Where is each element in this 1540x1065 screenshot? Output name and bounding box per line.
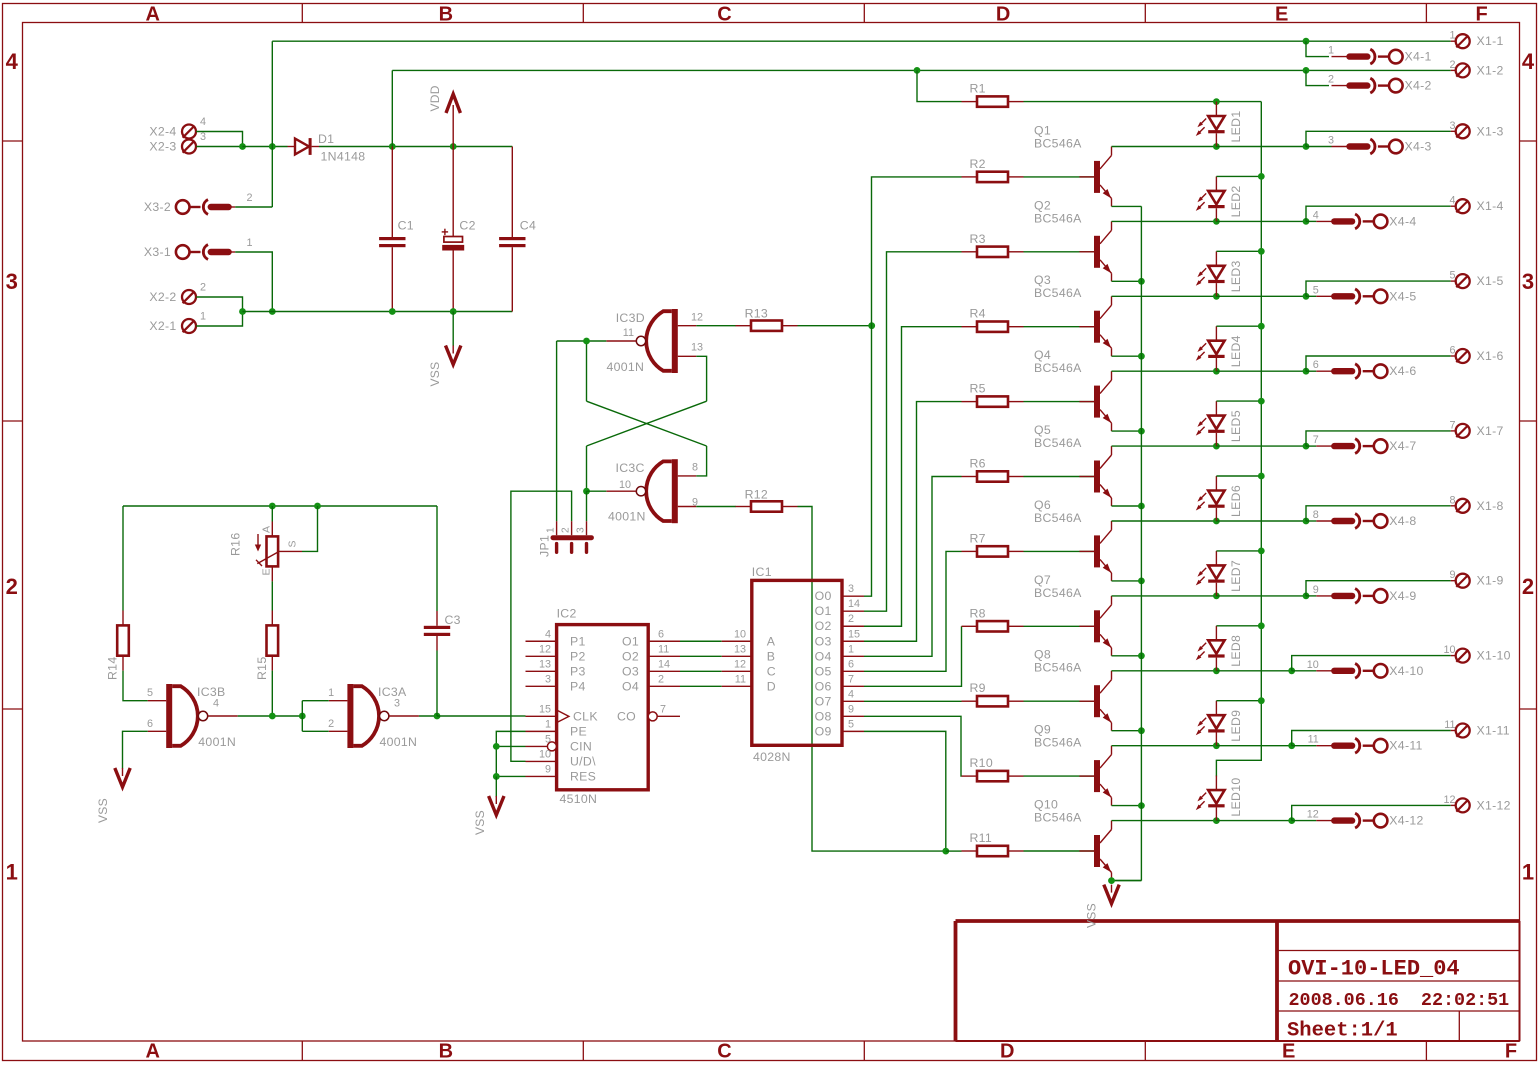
LED LED5: [1196, 401, 1243, 446]
junction IC3A input: [299, 713, 306, 720]
wire O9 to R11: [864, 731, 946, 851]
diode D1: [288, 132, 366, 164]
svg-text:13: 13: [691, 342, 703, 354]
svg-text:PE: PE: [570, 724, 587, 738]
connector X1-4: [1449, 195, 1503, 214]
junction LED3 anode: [1258, 248, 1265, 255]
wire jog up to X1-6: [1306, 356, 1451, 371]
junction LED7 anode: [1258, 548, 1265, 555]
wire Q8 collector to LED8: [1112, 670, 1217, 672]
wire R16 wiper to top: [302, 506, 318, 551]
svg-text:X1-3: X1-3: [1477, 124, 1504, 138]
wire IC3B out to IC3A in: [238, 715, 303, 717]
capacitor C4: [499, 147, 536, 312]
svg-text:O3: O3: [815, 634, 832, 648]
wire R16 to R15: [271, 581, 273, 610]
transistor Q6: [1034, 498, 1112, 581]
svg-text:X4-7: X4-7: [1389, 439, 1416, 453]
junction LED8 anode: [1258, 622, 1265, 629]
wire jog up to X1-12: [1292, 805, 1451, 820]
svg-text:1: 1: [200, 311, 206, 323]
wire jog to X4-10: [1292, 670, 1317, 672]
junction emitter VSS: [1108, 877, 1115, 884]
wire O1 to R3: [864, 252, 962, 611]
svg-text:F: F: [1475, 3, 1487, 25]
wire jog to X4-8: [1306, 520, 1316, 522]
svg-text:A: A: [145, 1041, 159, 1063]
frame row ticks right: [1520, 141, 1537, 709]
LED LED4: [1196, 326, 1243, 371]
wire R4 to Q3 base: [1024, 326, 1097, 328]
svg-text:12: 12: [1307, 809, 1319, 821]
svg-text:2: 2: [658, 673, 664, 685]
wire cross A to IC3C pin8: [696, 446, 706, 476]
svg-text:Q1: Q1: [1034, 123, 1051, 137]
svg-text:LED2: LED2: [1229, 185, 1243, 217]
wire junction to D1 anode node: [243, 146, 288, 148]
svg-text:BC546A: BC546A: [1034, 736, 1082, 750]
frame column ticks bottom: [302, 1041, 1426, 1061]
wire LED6 anode to rail: [1216, 475, 1261, 477]
svg-text:LED1: LED1: [1229, 111, 1243, 143]
wire R2 to Q1 base: [1024, 176, 1097, 178]
wire R14 bottom to IC3B pin5: [123, 671, 148, 701]
junction X1-5 jog: [1303, 293, 1310, 300]
resistor R1: [962, 82, 1024, 107]
junction X2 minus: [239, 308, 246, 315]
junction VIN node: [269, 143, 276, 150]
junction LED2 cathode: [1213, 218, 1220, 225]
svg-text:R9: R9: [970, 681, 986, 695]
junction R13 riser: [868, 322, 875, 329]
junction emitter rail Q4: [1138, 428, 1145, 435]
wire O3 to R5: [864, 402, 962, 642]
wire R6 to Q5 base: [1024, 476, 1097, 478]
frame row ticks left: [3, 141, 23, 709]
svg-text:7: 7: [1313, 434, 1319, 446]
connector X1-6: [1449, 345, 1503, 364]
svg-text:S: S: [287, 540, 299, 547]
resistor R6: [962, 457, 1024, 482]
junction C2 bottom: [450, 308, 457, 315]
svg-text:B: B: [439, 1041, 453, 1063]
wire VIN riser vertical: [271, 41, 273, 207]
svg-text:15: 15: [539, 703, 551, 715]
svg-text:1: 1: [6, 860, 18, 885]
wire Q9 emitter: [1112, 805, 1142, 807]
svg-text:1N4148: 1N4148: [321, 150, 366, 164]
svg-text:2: 2: [1522, 574, 1534, 599]
resistor R8: [962, 606, 1024, 631]
wire jog to X4-9: [1306, 595, 1316, 597]
connector X4-12: [1307, 809, 1424, 828]
svg-text:14: 14: [658, 658, 670, 670]
wire jog to X4-4: [1306, 220, 1316, 222]
svg-text:5: 5: [1449, 270, 1455, 282]
wire jog to X4-5: [1306, 295, 1316, 297]
wire jog to X4-12: [1292, 820, 1317, 822]
junction C1 top: [389, 143, 396, 150]
junction VDD symbol node: [450, 143, 457, 150]
wire O6 to R8: [864, 626, 962, 686]
svg-text:C: C: [767, 664, 776, 678]
svg-text:O4: O4: [815, 649, 832, 663]
wire O8 to R10: [864, 716, 962, 776]
svg-text:2: 2: [6, 574, 18, 599]
svg-text:6: 6: [848, 658, 854, 670]
svg-text:12: 12: [734, 658, 746, 670]
wire LED4 cathode to X4-6: [1216, 370, 1306, 372]
junction LED1 anode: [1213, 98, 1220, 105]
svg-text:U/D\: U/D\: [570, 754, 596, 768]
wire jog to X4-11: [1292, 745, 1317, 747]
svg-text:4: 4: [1522, 49, 1535, 74]
svg-text:X1-11: X1-11: [1477, 724, 1510, 738]
supply VDD symbol: [428, 85, 460, 146]
svg-text:Q6: Q6: [1034, 498, 1051, 512]
svg-text:JP1: JP1: [538, 535, 552, 557]
junction emitter rail Q9: [1138, 802, 1145, 809]
svg-text:3: 3: [1449, 120, 1455, 132]
wire O7 to R9: [864, 700, 962, 702]
svg-text:12: 12: [1443, 794, 1455, 806]
wire R7 to Q6 base: [1024, 550, 1097, 552]
wire LED6 cathode to X4-8: [1216, 520, 1306, 522]
resistor R2: [962, 157, 1024, 182]
svg-text:C1: C1: [398, 219, 414, 233]
svg-text:X1-8: X1-8: [1477, 499, 1504, 513]
wire Q8 emitter: [1112, 730, 1142, 732]
svg-text:X2-3: X2-3: [149, 140, 176, 154]
svg-text:A: A: [767, 634, 776, 648]
svg-text:8: 8: [1313, 509, 1319, 521]
svg-text:2: 2: [1328, 74, 1334, 86]
wire jog to X4-7: [1306, 445, 1316, 447]
LED LED6: [1196, 476, 1243, 521]
wire jog up to X1-3: [1306, 131, 1451, 146]
junction R15 bottom: [269, 713, 276, 720]
junction R16 wiper: [314, 503, 321, 510]
svg-text:O0: O0: [815, 589, 832, 603]
LED LED1: [1196, 102, 1243, 147]
svg-text:4: 4: [545, 628, 551, 640]
svg-text:3: 3: [394, 698, 400, 710]
svg-text:B: B: [439, 3, 453, 25]
resistor R9: [962, 681, 1024, 706]
supply VSS symbol IC3B: [96, 768, 130, 823]
supply VSS symbol top: [428, 312, 461, 387]
connector X3-1: [144, 237, 253, 259]
wire R13 to O0 net: [798, 325, 872, 327]
svg-text:O3: O3: [622, 664, 639, 678]
wire X3-1 to VSS node: [235, 252, 272, 312]
svg-text:10: 10: [619, 479, 631, 491]
wire IC3A input split: [302, 701, 329, 732]
capacitor C3: [424, 506, 461, 716]
svg-text:IC3B: IC3B: [197, 685, 226, 699]
LED LED9: [1196, 701, 1243, 746]
junction C1 bottom: [389, 308, 396, 315]
junction LED5 anode: [1258, 398, 1265, 405]
svg-text:X4-6: X4-6: [1389, 364, 1416, 378]
svg-text:C4: C4: [520, 219, 536, 233]
frame row numbers left: [6, 49, 19, 885]
wire jog up to X1-9: [1306, 581, 1451, 596]
svg-text:VSS: VSS: [473, 810, 487, 835]
svg-text:VSS: VSS: [96, 798, 110, 823]
svg-text:VDD: VDD: [428, 85, 442, 111]
junction emitter rail Q3: [1138, 353, 1145, 360]
svg-text:X2-2: X2-2: [149, 290, 176, 304]
wire R11 to Q10 base: [1024, 850, 1097, 852]
svg-text:BC546A: BC546A: [1034, 586, 1082, 600]
svg-text:1: 1: [1328, 45, 1334, 57]
svg-text:3: 3: [576, 527, 587, 533]
svg-text:IC1: IC1: [752, 565, 772, 579]
svg-text:6: 6: [147, 718, 153, 730]
junction X1-1 jog: [1303, 38, 1310, 45]
svg-text:X2-4: X2-4: [149, 125, 176, 139]
connector X1-8: [1449, 494, 1503, 513]
svg-text:R8: R8: [970, 606, 986, 620]
svg-text:R15: R15: [255, 657, 269, 680]
svg-text:O2: O2: [622, 649, 639, 663]
svg-text:2008.06.16 22:02:51: 2008.06.16 22:02:51: [1289, 990, 1510, 1011]
wire LED anode rail vertical: [1216, 102, 1261, 777]
junction LED2 anode: [1258, 173, 1265, 180]
wire R5 to Q4 base: [1024, 401, 1097, 403]
wire emitter rail to VSS: [1112, 880, 1142, 882]
junction LED5 cathode: [1213, 443, 1220, 450]
svg-text:11: 11: [658, 643, 669, 655]
svg-text:Q9: Q9: [1034, 723, 1051, 737]
wire Q2 collector to LED2: [1112, 220, 1217, 222]
connector X3-2: [144, 192, 253, 214]
wire Q4 emitter: [1112, 430, 1142, 432]
nor gate IC3A: [328, 684, 419, 749]
svg-text:VSS: VSS: [428, 362, 442, 387]
connector X4-2: [1328, 74, 1432, 93]
connector X4-6: [1313, 359, 1417, 378]
counter IC2 4510N: [526, 607, 681, 807]
connector X4-11: [1308, 734, 1423, 753]
svg-text:IC3A: IC3A: [378, 685, 407, 699]
transistor Q2: [1034, 198, 1112, 281]
junction LED3 cathode: [1213, 293, 1220, 300]
svg-text:R2: R2: [970, 157, 986, 171]
junction emitter rail Q8: [1138, 727, 1145, 734]
capacitor C2 polarized: [442, 147, 476, 312]
svg-text:5: 5: [545, 733, 551, 745]
svg-text:X3-1: X3-1: [144, 245, 171, 259]
svg-text:D: D: [1000, 1041, 1014, 1063]
svg-text:R7: R7: [970, 531, 986, 545]
wire IC3B pin6 to VSS: [123, 731, 148, 768]
wire Q3 collector to LED3: [1112, 295, 1217, 297]
wire Q5 collector to LED5: [1112, 445, 1217, 447]
svg-text:OVI-10-LED_04: OVI-10-LED_04: [1288, 957, 1460, 982]
resistor R15: [255, 611, 278, 681]
svg-text:Q5: Q5: [1034, 423, 1051, 437]
wire LED5 cathode to X4-7: [1216, 445, 1306, 447]
wire X2-2 to VSS node: [196, 297, 242, 312]
resistor R11: [962, 831, 1024, 856]
connector X4-1: [1328, 45, 1432, 64]
svg-text:E: E: [261, 568, 273, 575]
svg-text:12: 12: [691, 312, 703, 324]
resistor R5: [962, 382, 1024, 407]
connector X4-10: [1307, 659, 1424, 678]
connector X4-5: [1313, 284, 1417, 303]
wire Q7 emitter: [1112, 655, 1142, 657]
svg-text:5: 5: [147, 687, 153, 699]
wire IC2 outputs to IC1 inputs: [680, 641, 722, 686]
wire X1-2 rail riser: [391, 70, 393, 146]
wire R15 bottom to osc node: [271, 671, 273, 716]
svg-text:5: 5: [1313, 284, 1319, 296]
resistor R10: [962, 756, 1024, 781]
decoder IC1 4028N: [722, 565, 864, 764]
svg-text:7: 7: [848, 673, 854, 685]
svg-text:3: 3: [545, 673, 551, 685]
wire Q3 emitter: [1112, 355, 1142, 357]
wire Q10 collector to LED10: [1112, 820, 1217, 822]
svg-text:4: 4: [213, 698, 219, 710]
svg-text:X4-2: X4-2: [1405, 79, 1432, 93]
svg-text:5: 5: [848, 718, 854, 730]
junction LED10 cathode: [1213, 817, 1220, 824]
svg-text:D: D: [767, 679, 776, 693]
svg-text:O1: O1: [622, 634, 639, 648]
svg-text:1: 1: [546, 527, 557, 533]
wire R14 top: [122, 506, 124, 611]
svg-text:X1-6: X1-6: [1477, 349, 1504, 363]
wire latch cross B: [587, 401, 707, 446]
svg-text:X4-11: X4-11: [1389, 739, 1422, 753]
svg-text:O8: O8: [815, 709, 832, 723]
svg-text:15: 15: [848, 628, 860, 640]
wire jog down to X4-2: [1306, 70, 1329, 85]
svg-text:9: 9: [545, 763, 551, 775]
svg-text:11: 11: [1444, 719, 1455, 731]
svg-text:3: 3: [6, 269, 18, 294]
junction LED7 cathode: [1213, 593, 1220, 600]
connector X1-1: [1449, 30, 1503, 49]
capacitor C1: [379, 147, 414, 312]
LED LED8: [1196, 626, 1243, 671]
svg-text:10: 10: [539, 748, 551, 760]
svg-text:8: 8: [692, 462, 698, 474]
svg-text:4: 4: [200, 116, 206, 128]
svg-text:Q3: Q3: [1034, 273, 1051, 287]
svg-text:X1-5: X1-5: [1477, 274, 1504, 288]
wire O5 to R7: [864, 551, 962, 671]
wire O4 to R6: [864, 477, 962, 657]
svg-text:2: 2: [247, 192, 253, 204]
svg-text:4001N: 4001N: [198, 735, 236, 749]
svg-text:VSS: VSS: [1085, 903, 1099, 928]
svg-text:R13: R13: [745, 307, 768, 321]
svg-text:1: 1: [545, 718, 551, 730]
svg-text:13: 13: [539, 658, 551, 670]
resistor R14: [106, 611, 129, 681]
svg-text:BC546A: BC546A: [1034, 361, 1082, 375]
svg-text:Sheet:1/1: Sheet:1/1: [1287, 1020, 1398, 1043]
resistor R3: [962, 232, 1024, 257]
svg-text:R11: R11: [970, 831, 993, 845]
svg-text:4: 4: [1449, 195, 1455, 207]
wire X3-2 to VIN riser: [235, 206, 272, 208]
svg-text:CO: CO: [617, 709, 636, 723]
wire R12 to R11 net: [798, 507, 946, 852]
wire LED8 anode to rail: [1216, 625, 1261, 627]
svg-text:Q8: Q8: [1034, 648, 1051, 662]
connector X4-3: [1328, 135, 1432, 154]
svg-text:7: 7: [660, 703, 666, 715]
wire Q7 collector to LED7: [1112, 595, 1217, 597]
trimmer R16: [229, 522, 303, 582]
connector X1-5: [1449, 270, 1503, 289]
svg-text:O4: O4: [622, 679, 639, 693]
junction C3 bottom: [434, 713, 441, 720]
wire latch cross A: [587, 401, 707, 446]
svg-text:14: 14: [848, 598, 860, 610]
resistor R12: [736, 488, 798, 512]
connector X4-7: [1313, 434, 1417, 453]
svg-text:4: 4: [1313, 209, 1319, 221]
junction emitter rail Q7: [1138, 652, 1145, 659]
junction IC3C output: [583, 488, 590, 495]
frame column letters bottom: [145, 1041, 1517, 1063]
transistor Q3: [1034, 273, 1112, 356]
junction X1-2 jog: [1303, 67, 1310, 74]
svg-text:F: F: [1505, 1041, 1517, 1063]
junction X1-12 jog: [1288, 817, 1295, 824]
connector X4-9: [1313, 584, 1417, 603]
wire LED3 anode to rail: [1216, 250, 1261, 252]
svg-text:2: 2: [200, 282, 206, 294]
transistor Q7: [1034, 573, 1112, 656]
supply VSS symbol emitters: [1085, 885, 1120, 928]
LED LED10: [1196, 776, 1243, 821]
junction LED4 cathode: [1213, 368, 1220, 375]
svg-text:P2: P2: [570, 649, 586, 663]
junction LED9 cathode: [1213, 742, 1220, 749]
svg-text:LED9: LED9: [1229, 710, 1243, 742]
svg-text:10: 10: [1443, 644, 1455, 656]
svg-text:X4-10: X4-10: [1389, 664, 1423, 678]
svg-text:LED4: LED4: [1229, 335, 1243, 367]
wire net to X1-1 top rail: [272, 40, 1451, 42]
svg-text:4: 4: [848, 688, 854, 700]
svg-text:C3: C3: [445, 613, 461, 627]
wire LED8 cathode to X4-10: [1216, 670, 1291, 672]
connector X1-11: [1444, 719, 1510, 738]
wire LED7 anode to rail: [1216, 550, 1261, 552]
wire IC3C pin9 to R12: [696, 506, 736, 508]
wire X2-4 to junction: [196, 132, 242, 147]
svg-text:LED6: LED6: [1229, 485, 1243, 517]
junction X1-11 jog: [1288, 742, 1295, 749]
connector X1-12: [1443, 794, 1510, 813]
connector X1-9: [1449, 569, 1503, 588]
title block inner lines: [1277, 951, 1520, 1042]
junction R1 riser: [914, 67, 921, 74]
svg-text:IC3D: IC3D: [616, 311, 645, 325]
wire Q4 collector to LED4: [1112, 370, 1217, 372]
svg-text:2: 2: [561, 527, 572, 533]
svg-text:LED10: LED10: [1229, 777, 1243, 816]
